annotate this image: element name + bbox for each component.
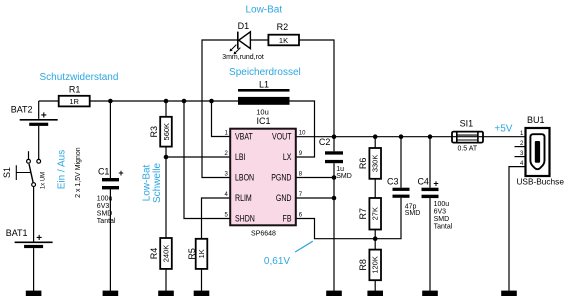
ground C2 — [326, 291, 342, 296]
capacitor C1 — [97, 101, 124, 291]
svg-text:Speicherdrossel: Speicherdrossel — [229, 67, 301, 78]
wire BU1 pin3 stub — [515, 156, 526, 158]
node rail-SHDN junction — [182, 99, 187, 104]
svg-text:IC1: IC1 — [256, 116, 270, 126]
svg-text:R1: R1 — [69, 85, 81, 95]
svg-text:Low-Bat: Low-Bat — [245, 4, 282, 15]
wire S1 to BAT1 — [33, 187, 35, 243]
svg-text:3mm,rund,rot: 3mm,rund,rot — [222, 54, 264, 61]
switch S1 — [2, 151, 47, 189]
svg-text:SI1: SI1 — [460, 118, 474, 128]
wire FB pin6 net — [297, 198, 402, 239]
resistor R6 — [358, 137, 381, 198]
svg-text:SHDN: SHDN — [235, 214, 255, 224]
fuse SI1 — [452, 118, 483, 152]
svg-text:R5: R5 — [187, 248, 197, 260]
ground BU1 — [501, 291, 517, 296]
wire R3 junction down to R4 — [165, 157, 167, 238]
svg-text:2 x 1,5V Mignon: 2 x 1,5V Mignon — [75, 147, 82, 198]
wire RLIM to R5 — [202, 198, 230, 239]
label Schutzwiderstand — [40, 72, 119, 83]
svg-text:240K: 240K — [162, 245, 171, 263]
svg-text:R2: R2 — [277, 22, 289, 32]
svg-text:6V3: 6V3 — [434, 208, 447, 215]
resistor R7 — [358, 198, 381, 239]
svg-text:Schwelle: Schwelle — [152, 163, 163, 203]
svg-text:R8: R8 — [358, 259, 368, 271]
svg-text:SMD: SMD — [405, 210, 421, 217]
label Low-Bat — [245, 4, 282, 15]
label 2 x 1,5V Mignon — [75, 147, 82, 198]
diode D1 — [222, 21, 264, 61]
svg-text:L1: L1 — [259, 79, 269, 89]
capacitor C3 — [387, 137, 420, 218]
svg-text:S1: S1 — [2, 167, 12, 178]
node GND junction — [332, 196, 337, 201]
battery BAT2 — [11, 101, 58, 159]
svg-text:R3: R3 — [149, 126, 159, 138]
pin names IC1 right — [271, 132, 292, 224]
pin numbers IC1 right — [299, 131, 306, 219]
svg-text:6V3: 6V3 — [97, 203, 110, 210]
svg-text:SMD: SMD — [434, 216, 450, 223]
svg-text:Schutzwiderstand: Schutzwiderstand — [40, 72, 119, 83]
wire +5V VOUT rail — [297, 136, 525, 138]
capacitor C4 — [417, 137, 452, 291]
svg-text:0.5 AT: 0.5 AT — [457, 146, 477, 153]
capacitor C2 — [319, 137, 352, 291]
wire LBON to LED cathode — [202, 40, 238, 178]
svg-text:560K: 560K — [162, 123, 171, 141]
svg-text:SP6648: SP6648 — [251, 231, 276, 238]
wire VBAT rail — [39, 100, 238, 102]
op-amp U1 : IC1 SP6648 boost converter — [230, 116, 296, 237]
inductor L1 — [238, 79, 290, 116]
svg-text:GND: GND — [276, 193, 292, 203]
svg-text:R7: R7 — [358, 208, 368, 220]
svg-text:SMD: SMD — [97, 210, 113, 217]
svg-text:LBON: LBON — [235, 173, 254, 183]
resistor R4 — [149, 238, 172, 291]
wire BU1 pin2 stub — [515, 146, 526, 148]
wire SHDN to rail — [184, 101, 230, 219]
resistor R2 — [268, 22, 299, 45]
resistor R5 — [187, 239, 207, 291]
svg-text:D1: D1 — [238, 21, 250, 31]
node PGND junction — [332, 175, 337, 180]
node rail-VBAT-pin junction — [209, 99, 214, 104]
svg-text:1R: 1R — [69, 97, 79, 106]
resistor R3 — [149, 101, 172, 157]
node rail-C1 junction — [108, 99, 113, 104]
svg-text:1x UM: 1x UM — [41, 172, 47, 189]
svg-text:VBAT: VBAT — [235, 132, 253, 142]
wire L1 to LX pin9 — [290, 101, 315, 157]
battery BAT1 — [6, 228, 53, 291]
ground R8 — [367, 291, 383, 296]
pin names IC1 left — [235, 132, 255, 224]
svg-text:RLIM: RLIM — [235, 193, 252, 203]
label Low-Bat Schwelle — [142, 163, 163, 203]
pin numbers BU1 — [520, 131, 524, 167]
svg-text:330K: 330K — [371, 155, 380, 173]
svg-text:120K: 120K — [371, 256, 380, 274]
svg-text:SMD: SMD — [336, 173, 352, 180]
svg-text:Ein / Aus: Ein / Aus — [57, 150, 68, 189]
svg-text:R4: R4 — [149, 248, 159, 260]
svg-text:VOUT: VOUT — [272, 132, 292, 142]
pin numbers IC1 left — [224, 131, 228, 219]
svg-text:LBI: LBI — [235, 152, 246, 162]
svg-text:C4: C4 — [417, 176, 429, 186]
svg-text:BAT1: BAT1 — [6, 228, 28, 238]
connector BU1 USB socket — [516, 115, 564, 186]
node rail-C4 junction — [428, 134, 433, 139]
node FB divider junction — [373, 236, 378, 241]
wire GND pin7 — [297, 197, 335, 199]
svg-text:PGND: PGND — [271, 173, 291, 183]
svg-text:R6: R6 — [358, 158, 368, 170]
ground C1 — [103, 291, 119, 296]
node rail-R6 junction — [373, 134, 378, 139]
svg-text:FB: FB — [283, 214, 292, 224]
wire D1 to R2 — [250, 39, 268, 41]
svg-text:Tantal: Tantal — [434, 223, 453, 230]
wire VBAT pin1 to rail — [212, 101, 230, 137]
svg-text:27K: 27K — [371, 207, 380, 220]
node rail-C3 junction — [399, 134, 404, 139]
svg-text:100u: 100u — [434, 201, 450, 208]
svg-text:1u: 1u — [336, 166, 344, 173]
label +5V — [494, 123, 512, 134]
label Ein / Aus — [57, 150, 68, 189]
wire BU1 pin4 to ground — [509, 167, 526, 291]
node rail-C2 junction — [332, 134, 337, 139]
ground BAT1 — [26, 291, 42, 296]
ground C4 — [422, 291, 438, 296]
label 0,61V callout — [264, 241, 313, 267]
svg-text:BAT2: BAT2 — [11, 105, 33, 115]
wire LBI pin2 — [166, 156, 230, 158]
svg-text:BU1: BU1 — [527, 115, 545, 125]
ground R4 — [158, 291, 174, 296]
resistor R1 — [59, 85, 90, 107]
svg-text:100u: 100u — [97, 195, 113, 202]
svg-text:+5V: +5V — [494, 123, 512, 134]
svg-text:C1: C1 — [98, 167, 110, 177]
svg-text:1K: 1K — [279, 36, 288, 45]
wire R2 to VOUT rail — [299, 40, 334, 137]
svg-text:Tantal: Tantal — [97, 218, 116, 225]
svg-text:LX: LX — [283, 152, 292, 162]
resistor R8 — [358, 239, 381, 291]
svg-text:0,61V: 0,61V — [264, 256, 290, 267]
label Speicherdrossel — [229, 67, 301, 78]
svg-text:C3: C3 — [387, 176, 399, 186]
node R3-LBI junction — [164, 155, 169, 160]
svg-text:1K: 1K — [197, 249, 206, 258]
node rail-R3 junction — [164, 99, 169, 104]
svg-text:10: 10 — [299, 131, 306, 137]
ground R5 — [194, 291, 210, 296]
wire PGND pin8 — [297, 177, 335, 179]
svg-text:+: + — [433, 179, 438, 189]
svg-text:+: + — [118, 168, 123, 178]
svg-text:USB-Buchse: USB-Buchse — [516, 177, 564, 187]
svg-text:C2: C2 — [319, 137, 331, 147]
